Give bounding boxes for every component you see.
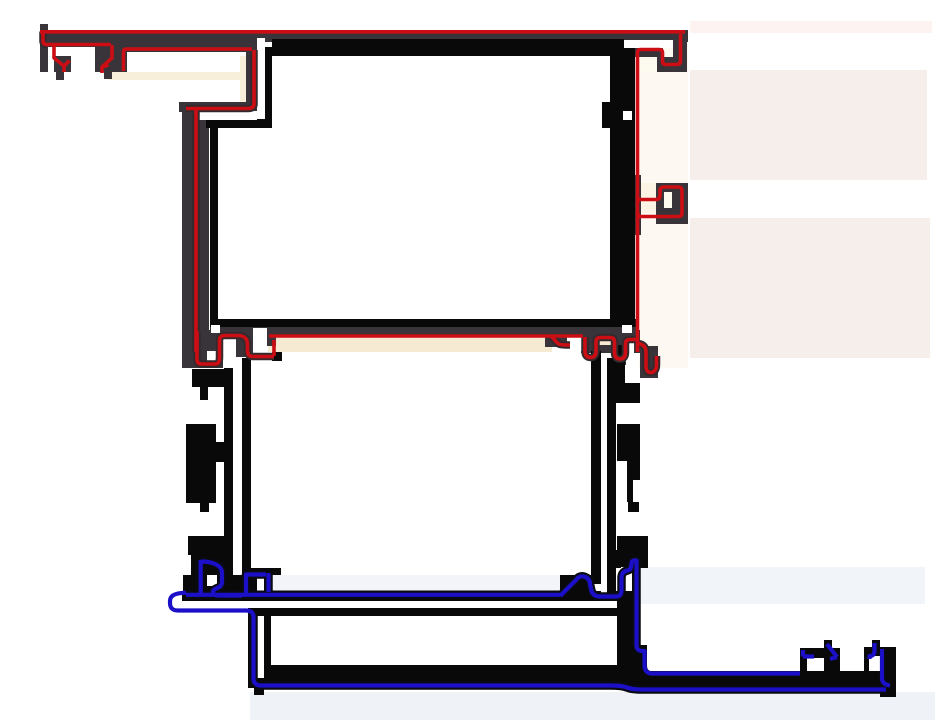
right tooth A' foot bbox=[625, 383, 640, 403]
blue left cap bbox=[170, 593, 254, 617]
backing right cluster bbox=[560, 560, 637, 645]
blue-grey band bottom right bbox=[633, 567, 925, 604]
tail hook 2 stem bbox=[872, 640, 880, 648]
dark fill right J bbox=[640, 346, 658, 378]
sill box bottom band bbox=[250, 665, 617, 682]
backing right J bbox=[638, 344, 657, 373]
tail hook2 notch white bbox=[869, 656, 881, 671]
sash left outer wall bbox=[224, 368, 233, 575]
right column bbox=[632, 566, 640, 598]
left block B stub bbox=[200, 503, 209, 512]
dark fill left curl diagonal bbox=[236, 333, 253, 357]
corner vertical dark bbox=[246, 44, 257, 112]
right tooth C' lower bbox=[625, 555, 648, 568]
red corner line bbox=[186, 50, 254, 109]
sill box left wall slot bbox=[257, 616, 264, 678]
channel tooth 2 stub bbox=[104, 72, 112, 79]
faint pink top band bbox=[690, 21, 932, 33]
right block B' stub bbox=[628, 502, 639, 512]
hook1 column dark bbox=[673, 33, 687, 72]
sill left foot stub bbox=[254, 688, 264, 695]
frame right wall bbox=[610, 42, 635, 324]
backing right curls bbox=[551, 336, 636, 359]
step black band bbox=[206, 119, 272, 128]
white pocket right curl2 bbox=[627, 343, 634, 354]
left block B bbox=[186, 424, 216, 503]
bottom light tint bbox=[250, 692, 935, 720]
backing left bar line bbox=[43, 32, 47, 45]
left tooth A stub bbox=[200, 387, 208, 400]
backing left curl bbox=[197, 331, 274, 364]
pink band A right bbox=[690, 70, 927, 180]
dark fill right curl step bbox=[545, 330, 568, 347]
corner white slot bbox=[257, 38, 265, 105]
white notch left B bbox=[216, 462, 224, 479]
top right white slot bbox=[624, 40, 673, 48]
red hook2 trace bbox=[638, 187, 683, 217]
hook1 foot dark bbox=[657, 57, 687, 72]
backing left cluster bbox=[201, 560, 269, 596]
top band dark bbox=[40, 30, 688, 42]
left vertical bar bbox=[40, 24, 48, 72]
hook2 cream pocket bbox=[641, 183, 656, 213]
left wall white square lower bbox=[211, 325, 220, 333]
left slot wall bbox=[264, 575, 272, 601]
step dark band bbox=[179, 102, 257, 112]
right cluster white notch bbox=[621, 567, 632, 586]
hook1 zig dark bbox=[634, 47, 663, 57]
channel tooth 3 backing bbox=[115, 52, 127, 72]
blue left cluster bbox=[201, 560, 269, 596]
white pocket right curls bbox=[567, 336, 583, 351]
beige pocket right curls bbox=[598, 338, 613, 345]
tail hook 2 block bbox=[864, 647, 896, 671]
channel tooth 2 bbox=[95, 47, 115, 72]
beige glazing strip middle bbox=[268, 337, 552, 352]
sash left inner wall bbox=[242, 358, 251, 575]
backing corner bbox=[186, 50, 254, 109]
right wall white square bbox=[623, 111, 632, 120]
cream vertical strip right bbox=[639, 36, 688, 368]
backing tail blue bbox=[637, 645, 801, 674]
red left bar line bbox=[43, 32, 47, 45]
red riser bbox=[272, 340, 276, 356]
sill box left wall bbox=[248, 608, 271, 688]
sill tail right foot bbox=[880, 648, 896, 697]
frame bottom band black bbox=[210, 319, 638, 328]
right tooth C' bbox=[617, 536, 648, 555]
red arrow tooth1 bbox=[54, 46, 70, 72]
backing wall and bottom bbox=[254, 615, 887, 690]
glass corner piece dark bbox=[267, 331, 276, 346]
pink band B right bbox=[690, 218, 930, 358]
blue tail step and top edge bbox=[637, 645, 801, 674]
hook2 block dark bbox=[656, 183, 688, 224]
right diagonal mass bbox=[560, 575, 592, 593]
white pocket left curl bbox=[222, 335, 235, 352]
red arrow tooth2 bbox=[102, 45, 112, 73]
channel white slot A bbox=[54, 48, 104, 57]
main top band bbox=[272, 39, 624, 56]
sill slot under flange bbox=[182, 601, 617, 608]
left cluster white notch bbox=[207, 575, 217, 586]
red top line bbox=[40, 30, 685, 34]
step white slot bbox=[199, 111, 257, 120]
sill box right wall bbox=[617, 601, 637, 688]
blue flange line bbox=[186, 593, 560, 597]
sill tail bar bbox=[637, 671, 880, 688]
red left curl trace bbox=[197, 331, 274, 364]
frame right wall notch block bbox=[602, 102, 610, 128]
sash right outer wall bbox=[607, 358, 616, 598]
backing flange line bbox=[186, 591, 560, 600]
dark fill right curls bbox=[581, 330, 640, 353]
beige top strip bbox=[108, 72, 244, 80]
right block B' bbox=[617, 424, 640, 502]
channel tooth 1 bbox=[54, 56, 71, 72]
lavender strip above sill bbox=[272, 575, 586, 592]
sill thin flange plate bbox=[182, 591, 640, 601]
red glazing line bbox=[269, 334, 583, 338]
dark fill left curl cluster bbox=[190, 330, 223, 368]
red hook1 and right vertical bbox=[638, 34, 681, 352]
right tooth A' bbox=[616, 345, 625, 403]
tail step bbox=[630, 645, 647, 671]
frame left wall bbox=[210, 126, 218, 324]
glass edge step bbox=[272, 352, 282, 361]
hook2 white notch bbox=[664, 192, 672, 208]
red right J bbox=[638, 344, 657, 373]
left block B attach bbox=[216, 442, 224, 462]
sill box top band bbox=[250, 608, 617, 616]
right wall white square lower bbox=[622, 325, 632, 333]
blue hook2 trace bbox=[870, 643, 891, 686]
left cluster slot bbox=[257, 575, 264, 599]
hook1 white notch bbox=[639, 57, 657, 72]
red inner channel line bbox=[46, 45, 252, 72]
sash right wall slot bbox=[601, 353, 607, 598]
red arm line bbox=[194, 108, 198, 352]
beige corner strip bbox=[240, 56, 248, 105]
red right step and curls bbox=[551, 336, 636, 359]
tail hook 1 block bbox=[800, 648, 840, 671]
blue wall and bottom line bbox=[254, 615, 887, 690]
left cluster blob bbox=[183, 575, 257, 601]
hook2 left sliver dark bbox=[633, 175, 641, 235]
left band under sash bbox=[247, 568, 281, 575]
white notch left curl bbox=[207, 351, 216, 361]
left tooth C block bbox=[188, 536, 224, 575]
frame bottom band dark bbox=[210, 327, 638, 335]
top-left corner wall bbox=[265, 47, 272, 128]
right corner block bbox=[609, 550, 640, 568]
tail hook1 notch white bbox=[807, 658, 824, 671]
left tooth A bbox=[192, 369, 224, 387]
backing arm bbox=[192, 108, 200, 352]
sash right inner wall bbox=[591, 351, 601, 584]
channel tooth 1 stub bbox=[56, 72, 64, 80]
tail hook 1 stem bbox=[824, 640, 832, 650]
dark fill right curl lower bbox=[612, 343, 626, 365]
sash left wall slot bbox=[233, 358, 242, 575]
left arm dark bbox=[182, 102, 209, 368]
blue hook1 trace bbox=[803, 644, 837, 659]
white slot left cluster bbox=[253, 328, 267, 353]
blue right cluster bbox=[560, 560, 637, 645]
